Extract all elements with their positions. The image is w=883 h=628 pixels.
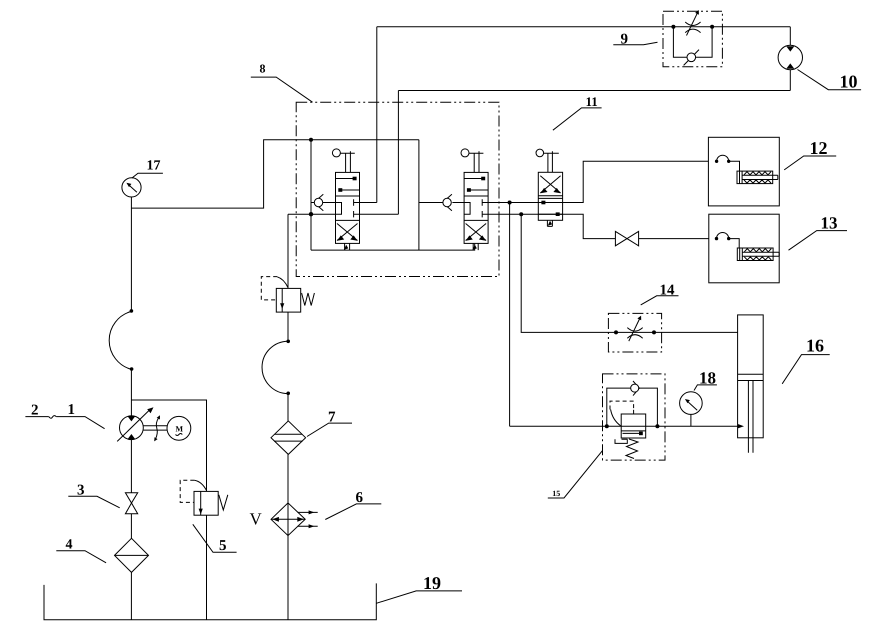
wire pump outlet branch to relief valve 5 [131,400,206,620]
wire shaft pump to motor [143,426,167,430]
valve U-B body [464,172,488,243]
hose arc in box 13 [717,233,729,239]
junction dots box 9 [671,25,675,29]
spring box 15 [626,439,638,459]
valve U-B drain tab [473,243,479,250]
svg-text:5: 5 [219,538,227,554]
check valve at valve U-B [443,194,452,210]
balance valve box 15 (dash-dot) [603,374,666,460]
wire stub to check valve A [311,202,336,204]
throttle valve 9 [685,10,700,36]
pressure gauge 18 [680,392,703,415]
wire tank 19 outline [44,583,376,619]
flow control box 9 (dash-dot) [663,11,722,66]
wire riser valve A upper right port to top line [360,27,377,203]
wire box 15 bypass loop [607,388,658,426]
svg-text:V: V [250,510,263,529]
svg-text:12: 12 [810,138,828,158]
pressure gauge 17 [122,178,141,197]
wire stub to check valve B [419,202,464,204]
valve U-B actuator [461,149,483,173]
hose arc left column [109,311,131,369]
relief valve mid-column [261,277,314,313]
pilot diagonal box 15 [611,410,621,427]
wire drain line under valves A and B [311,244,475,250]
hose arc middle column [262,341,288,393]
filter 7 [271,421,306,455]
throttle box 14 (dash-dot) [608,313,661,352]
relief cartridge in box 15 [621,410,646,438]
wire riser valve A lower right port to return line [360,91,399,215]
wire main line through box 15 to cylinder 16 with arrow [510,425,738,427]
drain bracket box 15 [615,439,627,443]
junction node hose top left column [130,309,134,313]
junction node valve 11 upper branch [508,201,512,205]
check valve in box 15 [631,381,640,396]
valve U-A actuator [332,149,354,173]
wire gauge 18 stem [690,414,692,426]
valve U-A body [336,172,360,243]
cooler 6 [271,503,318,536]
brake box 12 [708,137,779,206]
junction node at pilot line and valve U-A feed [309,138,313,142]
valve 11 actuator [536,149,559,172]
svg-text:16: 16 [806,336,824,356]
svg-text:1: 1 [68,402,76,418]
svg-text:M: M [176,424,184,433]
svg-text:13: 13 [821,214,838,233]
junction dots box 14 [614,330,618,334]
valve U-A drain tab [344,243,350,250]
svg-text:8: 8 [260,62,266,76]
hose arc in box 12 [717,155,729,161]
wire pilot feed left vertical x=311 [310,140,312,250]
wire vertical to cylinder bottom circuit [509,203,511,427]
gate valve between 11 and 13 [615,231,638,245]
electric motor 2 [167,416,191,440]
wire motor return line [398,90,790,92]
junction node hose top middle column [286,340,290,344]
check valve at valve U-A [314,194,323,210]
wire middle column to valve A left port [288,214,336,288]
throttle valve 14 [627,316,642,342]
valve 11 body [538,172,562,220]
junction node hose bottom left column [130,367,134,371]
wire jog in box 12 [729,161,740,171]
wire gauge 17 stem and branch [131,140,419,312]
svg-text:10: 10 [840,72,858,92]
relief valve 5 [180,480,228,515]
cylinder 16 [738,315,764,453]
wire vertical x=419 check valve B feed [418,140,420,250]
brake box 13 [709,214,779,283]
wire vertical to box 14 circuit [521,214,737,332]
wire motor 10 riser [789,27,791,91]
enclosure box 8 (dash-dot) [296,102,499,276]
svg-text:17: 17 [147,158,161,173]
pilot dashed box 15 [610,401,634,410]
wire valve B to valve 11 upper line [489,161,709,202]
hydraulic motor 10 [778,45,802,69]
junction node hose bottom middle column [286,392,290,396]
variable pump 1 [117,407,153,441]
junction node valve 11 lower branch [519,212,523,216]
bypass check valve 9 [673,27,712,66]
shut-off valve 3 [125,493,137,514]
junction dots box 15 [605,424,609,428]
svg-text:15: 15 [552,489,560,498]
spring cylinder in box 12 [737,171,778,184]
junction node at valve U-A left port [309,212,313,216]
wire jog in box 13 [729,239,740,248]
svg-text:11: 11 [586,94,598,109]
filter 4 [115,538,149,572]
svg-text:19: 19 [423,573,441,593]
wire top pressure line to box 9 and motor [377,26,791,28]
arrowhead at cylinder 16 bottom port [738,424,744,428]
valve 11 drain tab [547,220,552,226]
wire valve B to valve 11 lower line [489,214,709,238]
wire middle column below relief [287,312,289,620]
wire left column pump suction/delivery [130,369,132,619]
rotation arrow at shaft [154,415,160,441]
spring cylinder in box 13 [737,248,779,261]
